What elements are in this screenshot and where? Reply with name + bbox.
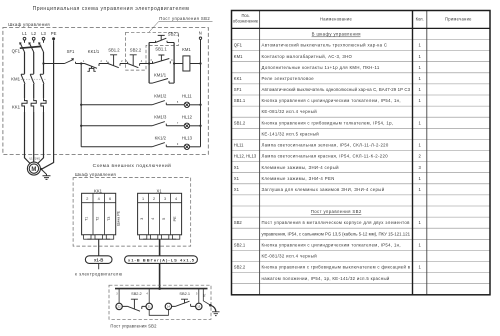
svg-text:Кнопка управления с грибовидны: Кнопка управления с грибовидным толкател… xyxy=(262,120,394,125)
svg-text:3: 3 xyxy=(140,218,144,220)
svg-text:Т3: Т3 xyxy=(107,217,111,221)
svg-text:Заглушка для клеммных зажимов: Заглушка для клеммных зажимов ЗНИ, ЗНИ-4… xyxy=(262,187,385,192)
svg-text:14: 14 xyxy=(167,305,171,309)
contactor KM1 main contact pole 2 xyxy=(30,74,34,84)
svg-text:KM1/3: KM1/3 xyxy=(154,115,167,120)
wire L2 lower to motor xyxy=(33,112,35,162)
contactor KM1 main contact pole 1 xyxy=(21,74,25,84)
terminal block KK1 xyxy=(82,193,116,235)
svg-text:В шкафу управления: В шкафу управления xyxy=(312,32,362,37)
contactor KM1 linkage dotted line xyxy=(21,78,46,80)
svg-text:1: 1 xyxy=(418,98,421,103)
svg-text:Шкаф управления: Шкаф управления xyxy=(75,172,116,177)
wire L1 lower to motor xyxy=(25,112,31,164)
svg-text:1: 1 xyxy=(418,120,421,125)
svg-text:4: 4 xyxy=(146,292,148,295)
node cable to bus junction xyxy=(158,287,161,290)
svg-text:SF1: SF1 xyxy=(67,49,75,54)
contact KM1/1 seal-in NO xyxy=(149,79,174,84)
svg-text:Автоматический выключатель тре: Автоматический выключатель трехполюсный … xyxy=(262,43,388,48)
breaker SF1 contact xyxy=(65,58,76,63)
svg-text:1: 1 xyxy=(418,242,421,247)
wire parallel branch left rail xyxy=(148,43,150,84)
svg-text:KK1: KK1 xyxy=(94,188,103,193)
wire control line from L3 to SF1 xyxy=(44,63,65,65)
svg-text:3: 3 xyxy=(164,197,166,201)
svg-text:HL12, HL13: HL12, HL13 xyxy=(234,154,257,159)
cable tag x1-B VVGng xyxy=(125,256,198,264)
svg-text:Лампа светосигнальная красная,: Лампа светосигнальная красная, IP54, СКЛ… xyxy=(262,154,389,159)
svg-text:13: 13 xyxy=(197,305,201,309)
svg-text:Т1: Т1 xyxy=(84,217,88,221)
svg-text:1: 1 xyxy=(418,65,421,70)
svg-text:Наименование: Наименование xyxy=(320,17,352,22)
svg-text:к электродвигателю: к электродвигателю xyxy=(75,272,123,277)
svg-text:L3: L3 xyxy=(41,31,46,36)
svg-text:4: 4 xyxy=(151,218,155,220)
svg-text:KM1: KM1 xyxy=(11,77,20,82)
svg-text:L1: L1 xyxy=(22,31,27,36)
svg-text:Кнопка управления с цилиндриче: Кнопка управления с цилиндрическим толка… xyxy=(262,98,401,103)
wire row1 middle xyxy=(166,104,184,106)
wire L3 middle xyxy=(43,84,45,98)
svg-text:SB2.1: SB2.1 xyxy=(179,291,190,296)
wire drop PE xyxy=(203,289,210,306)
svg-text:Х1: Х1 xyxy=(234,165,240,170)
svg-text:KM1: KM1 xyxy=(182,47,191,52)
svg-text:4: 4 xyxy=(171,59,173,62)
jumper wire 21 to 14 xyxy=(149,310,168,316)
svg-text:22: 22 xyxy=(118,305,122,309)
svg-text:Схема внешних подключений: Схема внешних подключений xyxy=(93,162,172,169)
wire row3 right xyxy=(190,146,201,148)
svg-text:2: 2 xyxy=(101,60,103,63)
svg-text:SB2.2: SB2.2 xyxy=(131,291,142,296)
wire below cable tag x1-B xyxy=(98,263,100,269)
contact KM1/3 NO xyxy=(152,122,166,126)
terminal block X1 feet xyxy=(139,235,146,239)
svg-text:21: 21 xyxy=(148,305,152,309)
svg-text:SB2.2: SB2.2 xyxy=(130,47,142,52)
wire drop 4 xyxy=(148,289,150,304)
svg-text:Лампа светосигнальная зеленая,: Лампа светосигнальная зеленая, IP54, СКЛ… xyxy=(262,143,389,148)
motor M1 xyxy=(27,162,40,175)
svg-text:SB2.1: SB2.1 xyxy=(234,242,246,247)
svg-text:Шкаф управления: Шкаф управления xyxy=(8,22,50,27)
svg-text:KM1/1: KM1/1 xyxy=(154,73,167,78)
thermal relay KK1 heater pole 2 xyxy=(31,98,36,112)
svg-text:QF1: QF1 xyxy=(12,48,21,53)
svg-text:Пост управления SB2: Пост управления SB2 xyxy=(311,209,362,214)
svg-text:Примечание: Примечание xyxy=(445,17,472,22)
svg-text:нажатом положении, IP54, 1р, К: нажатом положении, IP54, 1р, КЕ-141/32 и… xyxy=(262,276,390,281)
svg-text:QF1: QF1 xyxy=(234,43,243,48)
svg-text:PE: PE xyxy=(51,31,57,36)
breaker QF1 linkage bar xyxy=(20,46,42,48)
svg-text:1: 1 xyxy=(418,54,421,59)
svg-text:Контактор малогабаритный, АС-3: Контактор малогабаритный, АС-3, 3НО xyxy=(262,54,353,59)
button SB2.2 mushroom NC (post) xyxy=(122,299,146,311)
svg-text:5: 5 xyxy=(196,292,198,295)
terminal circle 14 xyxy=(165,303,171,309)
svg-text:1: 1 xyxy=(418,176,421,181)
node N coil junction xyxy=(199,62,201,64)
svg-text:7: 7 xyxy=(177,122,179,125)
svg-text:Клеммные зажимы, ЗНИ-4 PEN: Клеммные зажимы, ЗНИ-4 PEN xyxy=(262,176,335,181)
svg-text:1: 1 xyxy=(418,265,421,270)
post SB2 dashed enclosure box xyxy=(109,285,211,319)
wire X1 block bus xyxy=(143,238,176,240)
svg-text:1: 1 xyxy=(418,187,421,192)
node B junction xyxy=(173,62,175,64)
svg-text:1: 1 xyxy=(418,43,421,48)
svg-text:Дополнительные контакты 1з+1р: Дополнительные контакты 1з+1р для КМН, П… xyxy=(262,65,380,70)
svg-text:Реле электротепловое: Реле электротепловое xyxy=(262,76,315,81)
wire row3 left xyxy=(81,146,152,148)
contact KM1/2 NO xyxy=(152,101,166,105)
ground symbol at motor xyxy=(43,176,51,180)
wire node B to coil KM1 xyxy=(174,63,183,65)
svg-text:KK1: KK1 xyxy=(12,105,21,110)
svg-text:SB2.1: SB2.1 xyxy=(168,31,180,36)
wire top branch segments xyxy=(149,42,174,44)
cabinet dashed enclosure box (lower) xyxy=(73,178,191,247)
wire parallel branch right rail xyxy=(173,43,175,84)
svg-text:1: 1 xyxy=(418,87,421,92)
wire to post ground xyxy=(210,305,215,311)
node A junction xyxy=(148,62,150,64)
svg-text:HL11: HL11 xyxy=(234,143,244,148)
button SB2.1 NO (post) xyxy=(172,299,196,306)
svg-text:х1-В ВВГнг(А)-LS 4х1,5: х1-В ВВГнг(А)-LS 4х1,5 xyxy=(128,257,195,262)
svg-text:3: 3 xyxy=(116,292,118,295)
breaker QF1 pole 3 xyxy=(38,40,43,52)
svg-text:управления, IP54, с сальником: управления, IP54, с сальником PG 13,5 (к… xyxy=(262,231,411,236)
wire KK1 block drop to cable xyxy=(98,239,100,256)
terminal block KK1 feet xyxy=(84,235,91,239)
svg-text:1: 1 xyxy=(418,76,421,81)
node motor frame junction xyxy=(40,168,42,170)
wire row1 left xyxy=(81,104,152,106)
svg-text:KK1/1: KK1/1 xyxy=(88,49,100,54)
wire row3 middle xyxy=(166,146,184,148)
svg-text:SF1: SF1 xyxy=(234,87,242,92)
wire N vertical xyxy=(200,39,202,146)
parts table grid xyxy=(232,40,491,284)
svg-text:Автоматический выключатель одн: Автоматический выключатель однополюсный … xyxy=(262,87,411,92)
terminal circle 21 xyxy=(146,303,152,309)
button SB1.2 mushroom NC xyxy=(108,55,120,68)
svg-text:Пост управления в металлическо: Пост управления в металлическом корпусе … xyxy=(262,220,411,225)
svg-text:SB1.1: SB1.1 xyxy=(155,46,167,51)
svg-text:PE: PE xyxy=(204,293,207,297)
svg-text:PE: PE xyxy=(173,216,177,222)
wire L3 upper xyxy=(43,52,45,74)
wire row2 left xyxy=(81,125,152,127)
svg-text:HL13: HL13 xyxy=(182,136,193,141)
svg-text:4: 4 xyxy=(98,197,100,201)
lamp HL12 red xyxy=(184,123,189,128)
svg-text:KK1: KK1 xyxy=(234,76,243,81)
wire KK1 block bus xyxy=(87,238,110,240)
svg-text:КЕ-141/32 исп.5 красный: КЕ-141/32 исп.5 красный xyxy=(262,131,320,136)
thermal relay KK1 heater pole 3 xyxy=(41,98,46,112)
node N row1 junction xyxy=(199,104,201,106)
svg-text:Поз.: Поз. xyxy=(241,13,249,18)
svg-text:2: 2 xyxy=(153,197,155,201)
svg-text:х1-В: х1-В xyxy=(94,257,103,262)
svg-text:SB1.2: SB1.2 xyxy=(108,47,120,52)
svg-text:1: 1 xyxy=(83,60,85,63)
wire drop 3 xyxy=(118,289,120,304)
contact KK1/2 NO xyxy=(152,143,166,147)
wire L3 lower to motor xyxy=(38,112,44,164)
svg-text:Кнопка управления с цилиндриче: Кнопка управления с цилиндрическим толка… xyxy=(262,242,401,247)
breaker QF1 pole 2 xyxy=(29,40,34,52)
svg-text:KM1/2: KM1/2 xyxy=(154,94,167,99)
wire coil KM1 to N xyxy=(190,63,201,65)
svg-text:KK1/2: KK1/2 xyxy=(155,136,167,141)
node post enclosure ground junction xyxy=(209,304,212,307)
svg-text:6: 6 xyxy=(109,197,111,201)
svg-text:HL11: HL11 xyxy=(182,94,192,99)
svg-text:Х1: Х1 xyxy=(156,188,162,193)
node feeder row2 junction xyxy=(80,125,82,127)
wire row2 right xyxy=(190,125,201,127)
svg-text:Т2: Т2 xyxy=(96,217,100,221)
svg-text:4: 4 xyxy=(141,60,143,63)
svg-text:КЕ-081/32 исп.4 черный: КЕ-081/32 исп.4 черный xyxy=(262,254,318,259)
terminal block X1 xyxy=(138,193,182,235)
svg-text:HL12: HL12 xyxy=(182,115,193,120)
svg-text:W1: W1 xyxy=(36,157,40,160)
terminal circle 13 xyxy=(196,303,202,309)
button SB2.1 NO start xyxy=(156,35,168,42)
svg-text:9: 9 xyxy=(177,143,179,146)
svg-text:Пост управления SB2: Пост управления SB2 xyxy=(110,323,157,328)
svg-text:SB1.2: SB1.2 xyxy=(234,120,246,125)
node feeder tap junction xyxy=(80,62,82,64)
cable to post SB2 xyxy=(159,263,161,288)
svg-text:1: 1 xyxy=(418,143,421,148)
wire lamp feeder vertical xyxy=(80,64,82,147)
lamp HL13 red xyxy=(184,144,189,149)
button SB1.1 NO start xyxy=(153,55,171,64)
cable tag x1-B xyxy=(85,256,112,264)
wire SF1 to KK1/1 xyxy=(76,63,85,65)
button SB2.2 mushroom NC xyxy=(128,55,140,68)
wire X1 block drop to cable xyxy=(159,239,161,256)
thermal relay KK1 heater pole 1 xyxy=(22,98,27,112)
svg-text:обозначение: обозначение xyxy=(233,19,259,24)
wire SB1.2 to SB2.2 xyxy=(120,63,128,65)
breaker QF1 pole 1 xyxy=(19,40,24,52)
contact KK1/1 thermal NC xyxy=(85,64,100,72)
svg-text:L2: L2 xyxy=(31,31,36,36)
svg-text:5: 5 xyxy=(162,218,166,220)
svg-text:Кол.: Кол. xyxy=(416,17,424,22)
svg-text:1: 1 xyxy=(418,220,421,225)
svg-text:5: 5 xyxy=(177,101,179,104)
svg-text:2: 2 xyxy=(86,197,88,201)
svg-text:Принципиальная схема управлени: Принципиальная схема управления электрод… xyxy=(33,6,190,12)
wire PE vertical xyxy=(42,40,54,169)
svg-text:М: М xyxy=(31,167,36,173)
wire PE to ground xyxy=(41,169,46,176)
wire KK1/1 to SB1.2 xyxy=(99,63,108,65)
svg-text:КЕ-081/32 исп.4 черный: КЕ-081/32 исп.4 черный xyxy=(262,109,318,114)
cabinet dashed enclosure box xyxy=(3,28,208,155)
terminal circle 22 xyxy=(116,303,122,309)
wire L1 upper xyxy=(24,52,26,74)
ground symbol at post SB2 xyxy=(212,312,219,316)
wire L1 middle xyxy=(24,84,26,98)
svg-text:SB2: SB2 xyxy=(234,220,243,225)
coil KM1 xyxy=(183,56,190,71)
svg-text:Пост управления SB2: Пост управления SB2 xyxy=(159,16,210,21)
contactor KM1 main contact pole 3 xyxy=(40,74,44,84)
lamp HL11 green xyxy=(184,102,189,107)
wire L2 middle xyxy=(33,84,35,98)
svg-text:Шина PE: Шина PE xyxy=(117,210,121,226)
svg-text:3: 3 xyxy=(418,165,421,170)
svg-text:2: 2 xyxy=(121,60,123,63)
svg-text:Кнопка управления с грибовидны: Кнопка управления с грибовидным выключат… xyxy=(262,265,411,270)
svg-text:KM1: KM1 xyxy=(234,54,243,59)
svg-text:Клеммные зажимы, ЗНИ-4 серый: Клеммные зажимы, ЗНИ-4 серый xyxy=(262,165,340,170)
wire L2 upper xyxy=(33,52,35,74)
svg-text:Х1: Х1 xyxy=(234,176,240,181)
svg-text:2: 2 xyxy=(418,154,421,159)
svg-text:Х1: Х1 xyxy=(234,187,240,192)
wire row2 middle xyxy=(166,125,184,127)
control post SB2 dashed outline (top) xyxy=(126,32,179,70)
wire SB2.2 to node A xyxy=(140,63,153,65)
wire row1 right xyxy=(190,104,201,106)
svg-text:1: 1 xyxy=(142,197,144,201)
svg-text:SB2.2: SB2.2 xyxy=(234,265,246,270)
node L3 control tap junction xyxy=(42,62,44,64)
wire drop 5 xyxy=(198,289,200,304)
svg-text:SB1.1: SB1.1 xyxy=(234,98,246,103)
node N row2 junction xyxy=(199,125,201,127)
svg-text:4: 4 xyxy=(175,197,177,201)
svg-text:N: N xyxy=(199,31,202,36)
node feeder row1 junction xyxy=(80,104,82,106)
wire post distribution bus xyxy=(115,288,208,290)
